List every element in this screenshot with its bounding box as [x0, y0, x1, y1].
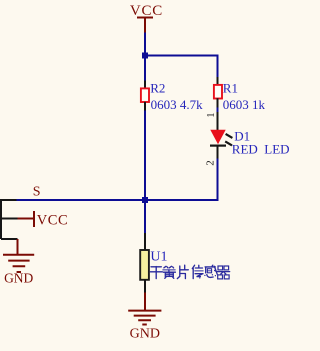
svg-text:R2: R2 [150, 81, 165, 96]
LED light arrow 2 [225, 141, 232, 145]
left component edge [1, 200, 18, 239]
svg-text:VCC: VCC [37, 212, 68, 228]
svg-text:GND: GND [4, 271, 33, 286]
pin stub S (left component) [0, 199, 18, 201]
power port VCC (top) [130, 3, 163, 33]
LED light arrow 1 [226, 134, 233, 138]
svg-text:S: S [33, 185, 41, 200]
glyph 干 [150, 267, 162, 279]
wire R1 to D1 [217, 108, 219, 113]
resistor R1 [214, 77, 222, 108]
ground GND (left) [3, 239, 34, 286]
ground GND (bottom) [128, 293, 161, 342]
resistor R2 [141, 81, 149, 111]
wire corner down to R1 [217, 55, 219, 78]
svg-text:R1: R1 [223, 81, 238, 96]
wire junction A to R1 branch (horizontal) [144, 55, 219, 57]
svg-text:U1: U1 [150, 250, 167, 265]
svg-text:1: 1 [206, 113, 217, 118]
svg-text:2: 2 [204, 160, 216, 166]
wire VCC to junction A [144, 33, 146, 56]
wire junction A to R2 [144, 56, 146, 81]
glyph 片 [177, 265, 188, 278]
power port VCC (left) [18, 211, 69, 228]
wire junction B to U1 [144, 200, 146, 234]
glyph 器 [218, 266, 223, 270]
svg-text:RED LED: RED LED [232, 142, 290, 157]
junction A [142, 53, 148, 59]
junction B [142, 197, 148, 203]
wire S net [17, 199, 146, 201]
wire R2 to junction B [144, 111, 146, 201]
sensor U1 [140, 233, 149, 293]
glyph 传 [192, 265, 202, 278]
wire corner to junction B [145, 199, 219, 201]
glyph 簧 [164, 266, 174, 268]
svg-text:GND: GND [130, 327, 160, 342]
svg-text:0603 1k: 0603 1k [223, 97, 266, 112]
diode D1 (LED) [210, 112, 232, 159]
svg-text:0603 4.7k: 0603 4.7k [151, 97, 204, 112]
value 干簧片传感器 (drawn glyphs) [150, 265, 229, 279]
wire D1 down to corner [217, 159, 219, 202]
glyph 感 [205, 265, 215, 273]
